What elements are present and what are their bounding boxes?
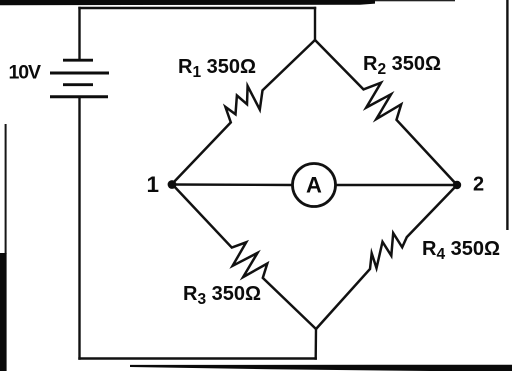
svg-text:R2 350Ω: R2 350Ω: [363, 53, 441, 78]
resistor R2: [315, 40, 457, 185]
node 1 junction dot: [168, 180, 177, 189]
scan artifact: top black bar: [0, 0, 375, 5]
scan artifact: bottom black bar: [130, 365, 512, 371]
node 2 junction dot: [453, 181, 461, 189]
scan artifact: left bottom thick bar: [0, 253, 7, 371]
resistor R4: [316, 185, 457, 329]
svg-text:R1 350Ω: R1 350Ω: [178, 56, 256, 81]
scan artifact: right edge line: [506, 0, 508, 230]
wire: bottom horizontal: [80, 357, 316, 359]
svg-text:R3 350Ω: R3 350Ω: [183, 283, 261, 308]
resistor R1: [172, 40, 315, 184]
svg-text:A: A: [306, 173, 322, 198]
wire: top horizontal from battery to top node: [80, 7, 316, 9]
svg-text:10V: 10V: [9, 62, 41, 84]
battery B1 10V: [50, 60, 109, 96]
wire: bridge right horizontal ammeter to node2: [336, 184, 458, 186]
scan artifact: faint thin top line continuation: [375, 0, 455, 1]
svg-text:2: 2: [473, 174, 484, 196]
wire: vertical drop to diamond top vertex: [314, 8, 316, 40]
svg-text:R4 350Ω: R4 350Ω: [422, 238, 500, 263]
wire: bridge left horizontal node1 to ammeter: [172, 183, 293, 186]
resistor R3: [172, 184, 316, 329]
wire: left vertical below battery down to bottom: [78, 97, 80, 359]
ammeter A: [293, 164, 336, 207]
wire: left vertical battery top stub: [78, 8, 80, 60]
scan artifact: left thin line: [5, 124, 7, 254]
wire: vertical rise to diamond bottom vertex: [315, 329, 318, 359]
svg-text:1: 1: [147, 172, 160, 197]
